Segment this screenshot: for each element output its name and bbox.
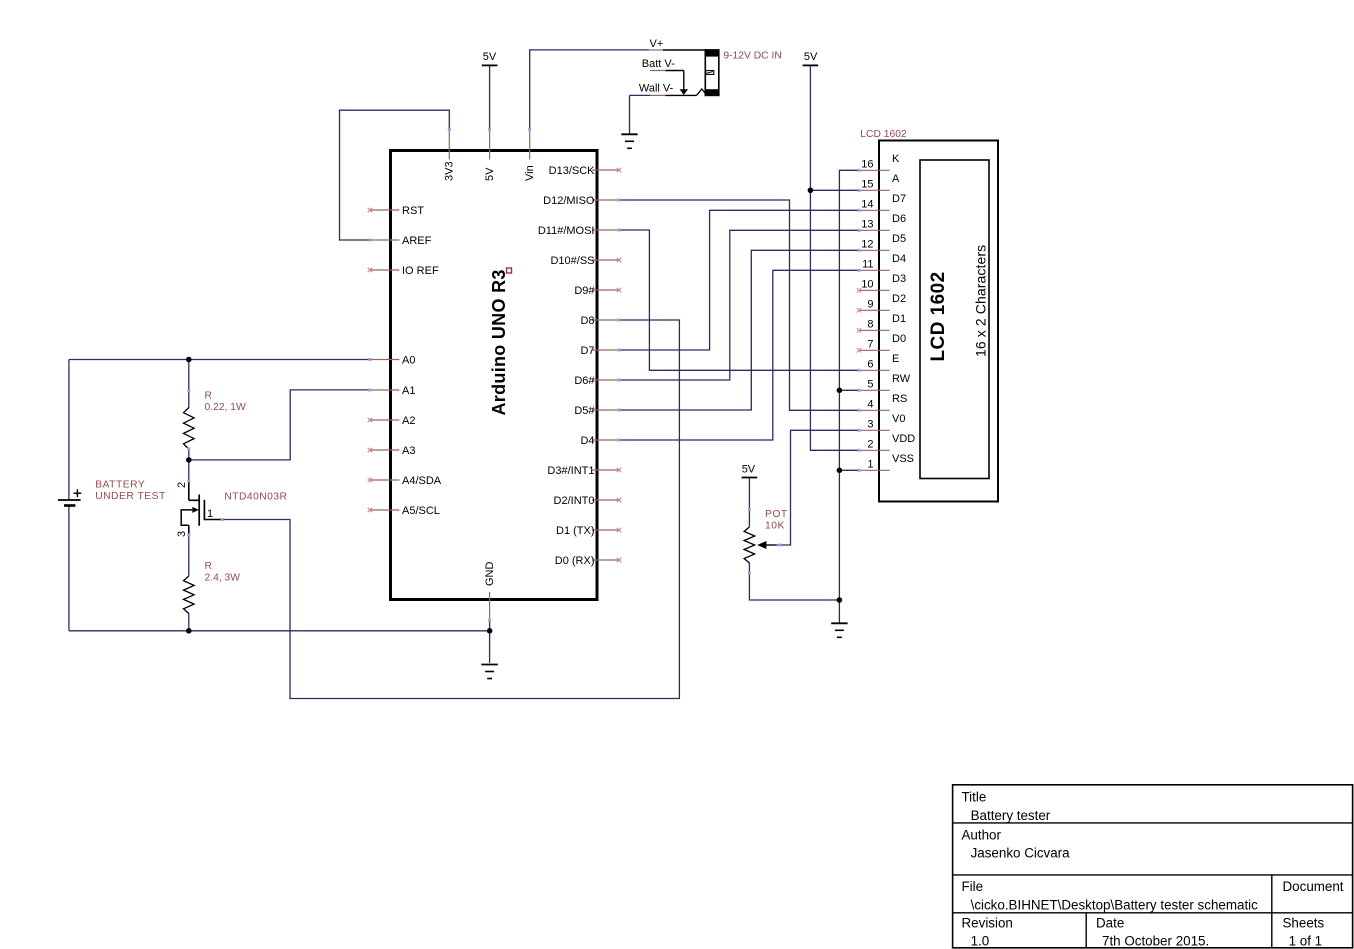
svg-text:IO REF: IO REF <box>402 265 439 277</box>
svg-text:5V: 5V <box>484 167 496 181</box>
svg-text:GND: GND <box>484 562 496 587</box>
svg-text:D6#: D6# <box>574 375 595 387</box>
svg-text:13: 13 <box>861 218 873 230</box>
svg-text:9: 9 <box>867 298 873 310</box>
svg-text:15: 15 <box>861 178 873 190</box>
svg-text:\cicko.BIHNET\Desktop\Battery: \cicko.BIHNET\Desktop\Battery tester sch… <box>971 897 1259 912</box>
svg-text:Title: Title <box>962 790 987 805</box>
svg-text:14: 14 <box>861 198 873 210</box>
svg-text:A3: A3 <box>402 445 415 457</box>
svg-text:POT: POT <box>765 509 788 520</box>
svg-text:Batt V-: Batt V- <box>642 58 675 70</box>
svg-text:V0: V0 <box>892 413 905 425</box>
svg-text:16: 16 <box>861 158 873 170</box>
svg-text:D2/INT0: D2/INT0 <box>554 495 595 507</box>
svg-text:D8: D8 <box>580 315 594 327</box>
svg-text:UNDER TEST: UNDER TEST <box>95 491 166 502</box>
svg-text:A: A <box>892 173 900 185</box>
svg-text:RST: RST <box>402 205 424 217</box>
svg-text:10: 10 <box>861 278 873 290</box>
svg-text:A4/SDA: A4/SDA <box>402 475 442 487</box>
svg-text:5V: 5V <box>804 51 818 63</box>
svg-text:1: 1 <box>207 508 213 520</box>
svg-text:LCD 1602: LCD 1602 <box>860 129 907 140</box>
svg-text:A0: A0 <box>402 355 415 367</box>
svg-text:D1 (TX): D1 (TX) <box>556 525 595 537</box>
svg-text:RS: RS <box>892 393 907 405</box>
svg-text:File: File <box>962 879 984 894</box>
svg-text:D10#/SS: D10#/SS <box>550 255 594 267</box>
svg-text:NTD40N03R: NTD40N03R <box>224 492 287 503</box>
svg-text:6: 6 <box>867 358 873 370</box>
svg-text:A1: A1 <box>402 385 415 397</box>
svg-text:2: 2 <box>176 482 188 488</box>
svg-text:D0 (RX): D0 (RX) <box>555 555 595 567</box>
svg-text:D12/MISO: D12/MISO <box>543 195 595 207</box>
svg-text:D0: D0 <box>892 333 906 345</box>
svg-text:D3: D3 <box>892 273 906 285</box>
svg-text:D13/SCK: D13/SCK <box>549 165 596 177</box>
svg-text:D7: D7 <box>892 193 906 205</box>
svg-text:Date: Date <box>1096 916 1124 931</box>
svg-text:3: 3 <box>867 418 873 430</box>
svg-text:VDD: VDD <box>892 433 915 445</box>
svg-text:Arduino UNO R3: Arduino UNO R3 <box>489 269 509 415</box>
svg-text:Document: Document <box>1283 879 1344 894</box>
svg-text:10K: 10K <box>765 521 785 532</box>
svg-text:K: K <box>892 153 900 165</box>
svg-text:12: 12 <box>861 238 873 250</box>
svg-text:Revision: Revision <box>962 916 1013 931</box>
svg-text:5V: 5V <box>483 51 497 63</box>
svg-text:D5: D5 <box>892 233 906 245</box>
svg-text:Battery tester: Battery tester <box>971 808 1051 823</box>
svg-text:A2: A2 <box>402 415 415 427</box>
svg-text:D11#/MOSI: D11#/MOSI <box>538 225 595 237</box>
svg-text:R: R <box>205 561 212 572</box>
svg-text:D4: D4 <box>892 253 906 265</box>
svg-text:1.0: 1.0 <box>971 934 990 949</box>
svg-text:0.22, 1W: 0.22, 1W <box>205 402 246 413</box>
svg-text:Vin: Vin <box>524 165 536 181</box>
svg-text:2: 2 <box>867 438 873 450</box>
svg-text:5: 5 <box>867 378 873 390</box>
svg-text:7th October 2015.: 7th October 2015. <box>1102 934 1209 949</box>
svg-text:5V: 5V <box>742 463 756 475</box>
svg-text:11: 11 <box>862 258 873 270</box>
svg-text:VSS: VSS <box>892 453 914 465</box>
svg-text:D3#/INT1: D3#/INT1 <box>547 465 594 477</box>
svg-text:Jasenko Cicvara: Jasenko Cicvara <box>971 846 1071 861</box>
svg-text:AREF: AREF <box>402 235 432 247</box>
svg-text:LCD 1602: LCD 1602 <box>928 271 949 361</box>
svg-text:16 x 2 Characters: 16 x 2 Characters <box>973 245 989 357</box>
svg-text:1 of 1: 1 of 1 <box>1289 934 1323 949</box>
svg-text:E: E <box>892 353 899 365</box>
svg-text:8: 8 <box>867 318 873 330</box>
svg-text:4: 4 <box>867 398 873 410</box>
svg-text:3: 3 <box>176 531 188 537</box>
svg-text:V+: V+ <box>650 38 664 50</box>
svg-text:D7: D7 <box>580 345 594 357</box>
svg-text:D6: D6 <box>892 213 906 225</box>
svg-text:3V3: 3V3 <box>444 161 456 181</box>
svg-text:D4: D4 <box>580 435 594 447</box>
svg-text:Wall V-: Wall V- <box>639 83 674 95</box>
svg-text:2.4, 3W: 2.4, 3W <box>205 573 241 584</box>
svg-text:A5/SCL: A5/SCL <box>402 505 440 517</box>
svg-text:D2: D2 <box>892 293 906 305</box>
svg-text:BATTERY: BATTERY <box>95 479 145 490</box>
svg-text:Author: Author <box>962 828 1002 843</box>
svg-text:D1: D1 <box>892 313 906 325</box>
svg-text:RW: RW <box>892 373 911 385</box>
svg-text:D5#: D5# <box>574 405 595 417</box>
svg-text:D9#: D9# <box>574 285 595 297</box>
svg-text:R: R <box>205 391 212 402</box>
svg-text:1: 1 <box>867 458 873 470</box>
svg-text:7: 7 <box>867 338 873 350</box>
svg-text:9-12V DC IN: 9-12V DC IN <box>723 51 781 62</box>
svg-text:Sheets: Sheets <box>1283 916 1325 931</box>
